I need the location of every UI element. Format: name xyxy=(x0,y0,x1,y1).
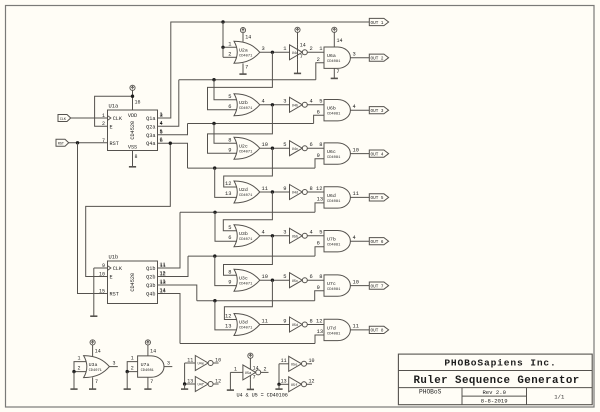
svg-text:7: 7 xyxy=(300,54,303,60)
svg-text:5: 5 xyxy=(283,274,286,280)
svg-text:12: 12 xyxy=(225,181,231,187)
svg-text:1: 1 xyxy=(131,356,134,362)
svg-text:2: 2 xyxy=(131,366,134,372)
svg-text:OUT 2: OUT 2 xyxy=(371,57,384,62)
svg-text:13: 13 xyxy=(281,379,287,385)
svg-text:Q4a: Q4a xyxy=(146,141,155,147)
svg-text:3: 3 xyxy=(167,361,170,367)
svg-text:8: 8 xyxy=(319,274,322,280)
svg-text:4: 4 xyxy=(310,99,313,105)
svg-text:U2a: U2a xyxy=(239,48,248,54)
svg-text:VSS: VSS xyxy=(128,145,137,151)
svg-text:U7a: U7a xyxy=(141,362,150,368)
svg-text:CD4071: CD4071 xyxy=(239,107,253,111)
svg-text:12: 12 xyxy=(225,314,231,320)
svg-text:U2b: U2b xyxy=(239,100,248,106)
svg-text:CD4081: CD4081 xyxy=(327,200,341,204)
svg-text:PHOBoSapiens Inc.: PHOBoSapiens Inc. xyxy=(444,358,556,369)
svg-text:U4f: U4f xyxy=(198,383,204,388)
svg-text:OUT 1: OUT 1 xyxy=(371,21,384,26)
svg-text:7: 7 xyxy=(253,374,256,380)
svg-text:U4d: U4d xyxy=(292,191,298,196)
svg-text:5: 5 xyxy=(160,129,163,135)
svg-text:10: 10 xyxy=(262,142,268,148)
svg-text:8-8-2019: 8-8-2019 xyxy=(481,397,508,404)
svg-text:CD4071: CD4071 xyxy=(239,55,253,59)
svg-text:4: 4 xyxy=(353,104,356,110)
svg-text:13: 13 xyxy=(225,324,231,330)
svg-text:11: 11 xyxy=(353,324,359,330)
svg-text:13: 13 xyxy=(317,329,323,335)
svg-text:12: 12 xyxy=(215,378,221,384)
svg-text:10: 10 xyxy=(353,147,359,153)
svg-text:7: 7 xyxy=(95,379,98,385)
svg-text:CD4071: CD4071 xyxy=(89,369,103,373)
svg-text:3: 3 xyxy=(283,99,286,105)
svg-text:CD4071: CD4071 xyxy=(239,150,253,154)
svg-text:9: 9 xyxy=(283,318,286,324)
svg-text:6: 6 xyxy=(228,104,231,110)
svg-text:14: 14 xyxy=(300,42,306,48)
svg-text:6: 6 xyxy=(310,142,313,148)
svg-text:Q3a: Q3a xyxy=(146,133,155,139)
svg-text:U4c: U4c xyxy=(292,148,298,152)
svg-text:U3c: U3c xyxy=(239,275,248,281)
svg-text:U3d: U3d xyxy=(239,320,248,326)
svg-text:13: 13 xyxy=(317,197,323,203)
svg-text:14: 14 xyxy=(245,35,251,41)
svg-text:E: E xyxy=(110,275,113,281)
svg-text:U5b: U5b xyxy=(292,234,298,239)
svg-text:OUT 4: OUT 4 xyxy=(371,152,384,157)
svg-text:Q1a: Q1a xyxy=(146,116,155,122)
svg-text:10: 10 xyxy=(262,274,268,280)
svg-text:14: 14 xyxy=(337,38,343,44)
svg-text:U6d: U6d xyxy=(327,193,336,199)
svg-text:13: 13 xyxy=(187,378,193,384)
svg-text:PHOBoS: PHOBoS xyxy=(419,389,442,396)
svg-text:8: 8 xyxy=(228,269,231,275)
svg-text:13: 13 xyxy=(160,279,166,285)
svg-text:5: 5 xyxy=(228,94,231,100)
svg-text:8: 8 xyxy=(319,142,322,148)
svg-text:U6c: U6c xyxy=(327,149,336,155)
svg-text:CLK: CLK xyxy=(113,266,123,272)
svg-text:Q3b: Q3b xyxy=(146,283,155,289)
svg-text:1/1: 1/1 xyxy=(554,393,565,400)
svg-text:U6a: U6a xyxy=(327,53,336,59)
svg-text:7: 7 xyxy=(337,69,340,75)
svg-text:3: 3 xyxy=(262,46,265,52)
svg-text:1: 1 xyxy=(78,356,81,362)
svg-text:U5c: U5c xyxy=(292,280,298,284)
svg-text:1: 1 xyxy=(319,46,322,52)
svg-text:9: 9 xyxy=(228,279,231,285)
svg-text:5: 5 xyxy=(228,225,231,231)
svg-text:14: 14 xyxy=(95,349,101,355)
svg-text:2: 2 xyxy=(264,366,267,372)
svg-text:CD4520: CD4520 xyxy=(130,273,136,292)
svg-text:3: 3 xyxy=(283,230,286,236)
svg-text:11: 11 xyxy=(281,358,287,364)
svg-text:11: 11 xyxy=(353,191,359,197)
svg-text:4: 4 xyxy=(310,230,313,236)
svg-text:4: 4 xyxy=(160,120,163,126)
svg-text:Rev 2.0: Rev 2.0 xyxy=(482,389,506,396)
svg-text:5: 5 xyxy=(319,230,322,236)
svg-text:RST: RST xyxy=(58,143,64,147)
svg-text:U7d: U7d xyxy=(327,325,336,331)
svg-text:2: 2 xyxy=(310,46,313,52)
svg-text:11: 11 xyxy=(262,318,268,324)
svg-text:CD4081: CD4081 xyxy=(327,156,341,160)
svg-text:8: 8 xyxy=(135,154,138,160)
svg-text:2: 2 xyxy=(317,57,320,63)
svg-text:E: E xyxy=(110,124,113,130)
svg-text:U6b: U6b xyxy=(327,106,336,112)
svg-text:CD4081: CD4081 xyxy=(327,60,341,64)
svg-text:Q2a: Q2a xyxy=(146,124,155,130)
svg-text:U5e: U5e xyxy=(291,363,297,367)
svg-text:3: 3 xyxy=(160,112,163,118)
svg-text:U7c: U7c xyxy=(327,281,336,287)
svg-text:5: 5 xyxy=(283,142,286,148)
svg-text:RST: RST xyxy=(110,141,119,147)
svg-text:16: 16 xyxy=(135,100,141,106)
svg-text:CLK: CLK xyxy=(60,118,67,122)
svg-text:11: 11 xyxy=(187,357,193,363)
svg-text:Ruler Sequence Generator: Ruler Sequence Generator xyxy=(413,375,579,387)
svg-text:5: 5 xyxy=(319,99,322,105)
svg-text:6: 6 xyxy=(317,109,320,115)
svg-text:CD4081: CD4081 xyxy=(327,288,341,292)
svg-text:3: 3 xyxy=(353,52,356,58)
svg-text:14: 14 xyxy=(160,288,166,294)
svg-text:1: 1 xyxy=(234,366,237,372)
svg-text:6: 6 xyxy=(160,137,163,143)
svg-text:U4 & U5 = CD40106: U4 & U5 = CD40106 xyxy=(237,393,288,399)
svg-text:Q4b: Q4b xyxy=(146,292,155,298)
svg-text:U2d: U2d xyxy=(239,187,248,193)
svg-text:7: 7 xyxy=(150,379,153,385)
svg-text:14: 14 xyxy=(150,349,156,355)
svg-text:U4e: U4e xyxy=(198,363,204,367)
svg-text:3: 3 xyxy=(113,361,116,367)
svg-text:12: 12 xyxy=(160,271,166,277)
svg-text:8: 8 xyxy=(310,318,313,324)
svg-text:U3a: U3a xyxy=(89,362,98,368)
svg-text:U5f: U5f xyxy=(291,383,297,388)
svg-text:Q2b: Q2b xyxy=(146,275,155,281)
svg-text:2: 2 xyxy=(78,366,81,372)
svg-text:OUT 7: OUT 7 xyxy=(371,284,384,289)
svg-text:U5d: U5d xyxy=(292,323,298,328)
svg-text:8: 8 xyxy=(310,186,313,192)
svg-text:OUT 3: OUT 3 xyxy=(371,109,384,114)
svg-text:9: 9 xyxy=(317,285,320,291)
svg-text:1: 1 xyxy=(228,42,231,48)
svg-text:6: 6 xyxy=(228,235,231,241)
svg-text:RST: RST xyxy=(110,292,119,298)
svg-text:Q1b: Q1b xyxy=(146,266,155,272)
svg-text:9: 9 xyxy=(317,153,320,159)
svg-text:2: 2 xyxy=(228,52,231,58)
svg-text:CD4081: CD4081 xyxy=(327,332,341,336)
svg-text:6: 6 xyxy=(310,274,313,280)
svg-text:11: 11 xyxy=(160,262,166,268)
svg-text:6: 6 xyxy=(317,240,320,246)
svg-text:U4b: U4b xyxy=(292,103,298,108)
svg-text:CLK: CLK xyxy=(113,116,123,122)
svg-text:4: 4 xyxy=(353,235,356,241)
svg-text:OUT 5: OUT 5 xyxy=(371,196,384,201)
svg-text:U2c: U2c xyxy=(239,143,248,149)
svg-text:U3b: U3b xyxy=(239,231,248,237)
svg-text:7: 7 xyxy=(245,64,248,70)
svg-text:CD4520: CD4520 xyxy=(130,121,136,140)
svg-text:4: 4 xyxy=(262,99,265,105)
svg-text:8: 8 xyxy=(228,137,231,143)
svg-text:10: 10 xyxy=(309,358,315,364)
svg-text:12: 12 xyxy=(309,379,315,385)
svg-text:CD4071: CD4071 xyxy=(239,282,253,286)
svg-text:OUT 8: OUT 8 xyxy=(371,329,384,334)
svg-text:1: 1 xyxy=(283,46,286,52)
svg-text:12: 12 xyxy=(316,186,322,192)
svg-text:4: 4 xyxy=(262,230,265,236)
svg-text:CD4071: CD4071 xyxy=(239,238,253,242)
svg-text:U1a: U1a xyxy=(109,104,119,110)
svg-text:12: 12 xyxy=(316,318,322,324)
svg-text:CD4081: CD4081 xyxy=(327,244,341,248)
svg-text:U1b: U1b xyxy=(109,255,119,261)
svg-text:VDD: VDD xyxy=(128,113,137,119)
svg-text:CD4081: CD4081 xyxy=(141,369,155,373)
svg-text:9: 9 xyxy=(228,147,231,153)
svg-text:OUT 6: OUT 6 xyxy=(371,240,384,245)
svg-text:10: 10 xyxy=(353,279,359,285)
svg-text:9: 9 xyxy=(283,186,286,192)
svg-text:CD4071: CD4071 xyxy=(239,327,253,331)
svg-text:CD4071: CD4071 xyxy=(239,194,253,198)
svg-text:U7b: U7b xyxy=(327,237,336,243)
svg-text:CD4081: CD4081 xyxy=(327,113,341,117)
svg-text:13: 13 xyxy=(225,191,231,197)
svg-text:U5a: U5a xyxy=(245,372,252,376)
svg-text:11: 11 xyxy=(262,186,268,192)
svg-text:10: 10 xyxy=(215,357,221,363)
